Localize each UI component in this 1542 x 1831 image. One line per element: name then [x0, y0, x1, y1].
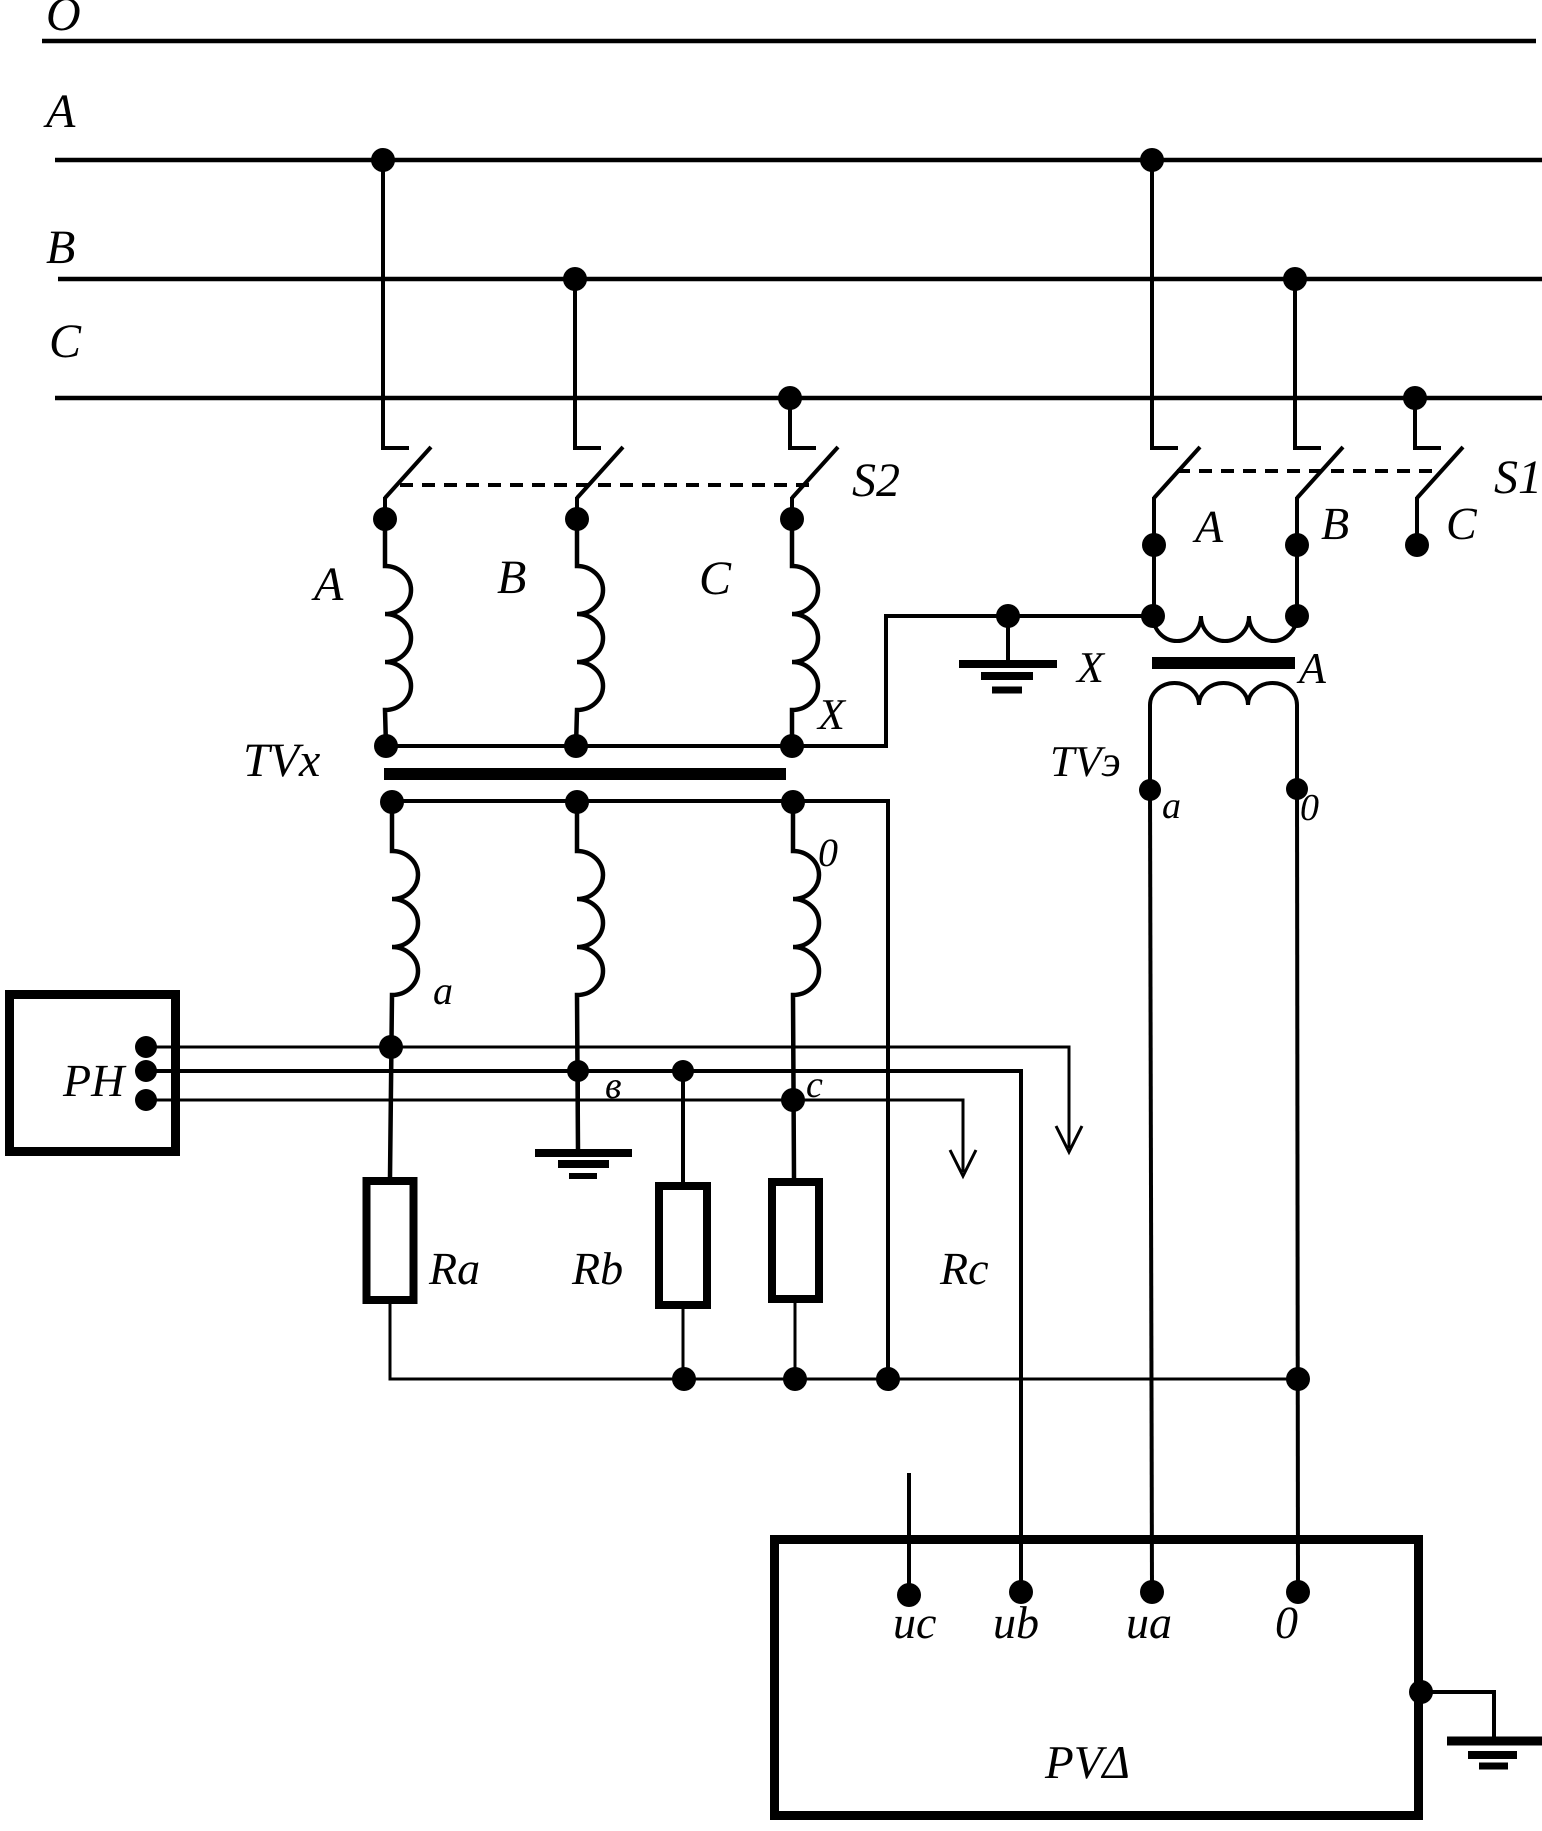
svg-text:C: C: [49, 315, 82, 368]
svg-text:ua: ua: [1126, 1597, 1172, 1648]
transformer TVx core: [384, 768, 786, 780]
bus A: [43, 85, 1542, 160]
svg-text:РН: РН: [62, 1055, 127, 1106]
bus B: [46, 221, 1542, 279]
node: PVD terminal uc: [893, 1583, 936, 1648]
wire: phase c measuring line with arrow: [146, 1100, 976, 1176]
node: bus C tap for S1: [1403, 386, 1427, 410]
node: PH terminal 1: [135, 1036, 157, 1058]
transformer TVx secondary winding 0: [793, 802, 838, 1178]
node: S2 pole A output: [373, 507, 397, 531]
svg-text:Ra: Ra: [428, 1243, 480, 1294]
node: winding b to line2: [567, 1060, 589, 1082]
node: bus A tap for S1: [1140, 148, 1164, 172]
svg-text:A: A: [311, 558, 344, 611]
node: S1 pole A output: [1142, 533, 1166, 557]
svg-text:0: 0: [818, 830, 838, 875]
node: S2 pole B output: [565, 507, 589, 531]
wire bus A down to S1 pole A: [1152, 160, 1178, 448]
resistor Ra: [367, 1181, 481, 1300]
node: S1 pole B output: [1285, 533, 1309, 557]
node: winding C bottom: [780, 734, 804, 758]
svg-text:B: B: [497, 551, 526, 604]
svg-text:S1: S1: [1494, 451, 1542, 504]
switch S2 pole B (contact + blade): [577, 447, 623, 519]
wire: line2 node down to Rb: [681, 1071, 685, 1182]
svg-text:0: 0: [1275, 1597, 1298, 1648]
node: secondary b top: [565, 790, 589, 814]
wire: phase b measuring line down to PVD terminal ub: [146, 1071, 1021, 1589]
resistor Rc: [772, 1182, 989, 1299]
node: secondary 0 top: [781, 790, 805, 814]
node: S2 pole C output: [780, 507, 804, 531]
wire: S1 pole B to TVe primary right: [1295, 545, 1299, 616]
transformer TVx primary winding B: [497, 519, 603, 746]
transformer TVe core: [1152, 657, 1295, 669]
svg-text:C: C: [1446, 498, 1478, 549]
node: rail to 0-wire junction: [1286, 1367, 1310, 1391]
transformer TVx secondary winding b: [577, 802, 622, 1151]
node: Rc bottom junction: [783, 1367, 807, 1391]
relay box PH: [10, 995, 176, 1152]
switch S1 pole B (contact + blade): [1297, 447, 1349, 549]
transformer TVx primary winding C: [699, 519, 847, 746]
svg-text:ub: ub: [993, 1597, 1039, 1648]
box PVD (recording voltmeter): [775, 1540, 1419, 1816]
transformer TVe secondary winding: [1139, 683, 1319, 829]
switch S2 linkage (dashed): [400, 483, 812, 487]
svg-text:0: 0: [1300, 787, 1319, 829]
svg-text:uc: uc: [893, 1597, 936, 1648]
node: bus B tap for S2: [563, 267, 587, 291]
node: secondary a top: [380, 790, 404, 814]
switch S1 pole A (contact + blade): [1154, 447, 1224, 552]
svg-text:S2: S2: [852, 454, 900, 507]
wire: S1 pole A to TVe primary left: [1152, 545, 1156, 616]
wire bus B down to S2 pole B: [575, 279, 601, 448]
switch S2 pole C (contact + blade): [792, 447, 838, 519]
transformer TVx primary winding A: [311, 519, 411, 746]
switch S1 pole C (contact + blade): [1417, 447, 1478, 549]
wire: stub to PVD terminal uc: [907, 1473, 911, 1592]
wire bus A down to S2 pole A: [383, 160, 409, 448]
svg-text:a: a: [1162, 785, 1181, 827]
svg-text:B: B: [46, 221, 75, 274]
svg-text:Rc: Rc: [939, 1243, 989, 1294]
svg-text:A: A: [43, 85, 76, 138]
node: Rb bottom junction: [672, 1367, 696, 1391]
switch S1 linkage (dashed): [1177, 469, 1437, 473]
bus O: [42, 0, 1536, 41]
svg-text:C: C: [699, 552, 732, 605]
node: winding a to line1: [379, 1035, 403, 1059]
node: S1 pole C output: [1405, 533, 1429, 557]
svg-text:a: a: [433, 968, 453, 1013]
transformer TVe primary winding: [1141, 604, 1309, 641]
svg-text:X: X: [816, 690, 847, 739]
node: PVD terminal ub: [993, 1580, 1039, 1648]
node: bus A tap for S2: [371, 148, 395, 172]
svg-text:Rb: Rb: [571, 1243, 623, 1294]
wire bus C down to S2 pole C: [790, 398, 816, 448]
svg-text:A: A: [1192, 501, 1224, 552]
node: PH terminal 2: [135, 1060, 157, 1082]
node: PVD terminal 0: [1275, 1580, 1310, 1648]
node: PVD terminal ua: [1126, 1580, 1172, 1648]
wire: TVe secondary a down to PVD terminal ua: [1150, 790, 1152, 1592]
wire: phase a measuring line with arrow: [146, 1047, 1082, 1152]
node: winding A bottom: [374, 734, 398, 758]
svg-text:B: B: [1321, 498, 1349, 549]
svg-text:TVэ: TVэ: [1050, 737, 1121, 786]
wire: Rc bottom lead: [794, 1303, 797, 1379]
svg-text:PVΔ: PVΔ: [1044, 1737, 1130, 1789]
node: right drop junction: [876, 1367, 900, 1391]
ground at TVe X lead: [959, 604, 1057, 690]
svg-text:X: X: [1075, 643, 1106, 692]
node: bus C tap for S2: [778, 386, 802, 410]
svg-text:A: A: [1296, 644, 1327, 693]
svg-text:TVx: TVx: [243, 734, 320, 787]
transformer TVx secondary winding a: [390, 802, 453, 1177]
wire: TVx secondary common top rail and right drop: [392, 801, 888, 1379]
wire bus C down to S1 pole C: [1415, 398, 1441, 448]
wire bus B down to S1 pole B: [1295, 279, 1321, 448]
node: bus B tap for S1: [1283, 267, 1307, 291]
svg-text:O: O: [46, 0, 81, 41]
wire: TVe secondary 0 down to PVD terminal 0: [1297, 789, 1298, 1592]
node: PH terminal 3: [135, 1089, 157, 1111]
wire: Rb bottom lead: [682, 1309, 685, 1379]
resistor Rb: [571, 1186, 707, 1305]
bus C: [49, 315, 1542, 398]
node: winding 0 to line3: [781, 1088, 805, 1112]
ground under winding b: [535, 1071, 632, 1176]
node: Rb to line2: [672, 1060, 694, 1082]
wire: TVx primary common rail up to X lead toward TVe: [386, 616, 1153, 746]
wire: resistor common bottom rail: [390, 1304, 1298, 1379]
switch S2 pole A (contact + blade): [385, 447, 431, 519]
ground at PVD case: [1409, 1680, 1542, 1766]
node: winding B bottom: [564, 734, 588, 758]
